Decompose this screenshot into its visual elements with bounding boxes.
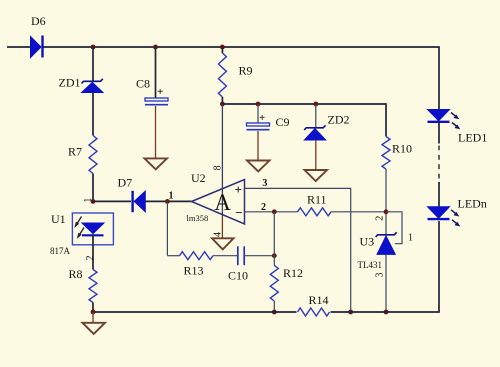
zener diode ZD2: [304, 113, 349, 140]
zener diode ZD1: [59, 76, 104, 93]
wire: U3 anode to bottom rail: [385, 254, 387, 312]
wire: LEDn anode stub: [438, 182, 440, 207]
ground below R8: [83, 323, 106, 334]
svg-text:8: 8: [213, 165, 224, 170]
resistor R13: [180, 252, 214, 278]
node: top rail / C8 branch junction: [153, 45, 158, 50]
resistor R9: [218, 53, 252, 97]
resistor R8: [69, 267, 98, 303]
svg-text:R14: R14: [309, 293, 329, 307]
wire: LEDn cathode down and bottom rail: [93, 221, 439, 312]
svg-text:C10: C10: [228, 269, 248, 283]
svg-text:R10: R10: [392, 141, 412, 155]
svg-text:R13: R13: [184, 263, 204, 277]
wire: R10 to U3 junction: [385, 169, 387, 236]
node: rail2 / R9 junction: [220, 102, 225, 107]
wire: ZD1 to R7: [92, 93, 94, 136]
svg-text:TL431: TL431: [358, 260, 383, 270]
resistor R12: [270, 266, 303, 302]
wire: second rail to R10 corner: [222, 104, 386, 137]
svg-text:+: +: [235, 182, 242, 197]
svg-text:D6: D6: [31, 14, 46, 28]
optocoupler U1: [50, 212, 113, 256]
node: pin2 / R12 top junction: [272, 209, 277, 214]
ground below op-amp: [212, 238, 234, 249]
svg-text:R9: R9: [239, 64, 253, 78]
svg-text:R12: R12: [283, 266, 303, 280]
svg-text:ZD1: ZD1: [59, 76, 81, 90]
svg-text:lm358: lm358: [187, 213, 209, 223]
wire: ground stem below C9: [257, 131, 259, 161]
diode D7: [118, 175, 146, 212]
wire: U1 to R8, pin 2: [92, 235, 94, 269]
wire: R9 bottom to rail2 junction: [221, 97, 223, 104]
svg-text:4: 4: [212, 232, 223, 237]
wire: R13 to C10: [213, 255, 237, 257]
wire: R11 to U3 ref junction: [331, 211, 386, 213]
node: R8 / bottom rail / ground junction: [91, 310, 96, 315]
wire: R7 to U1 node: [92, 174, 94, 202]
svg-text:−: −: [235, 205, 242, 220]
wire: feedback vertical from output node: [166, 201, 168, 255]
node: rail2 / ZD2 junction: [313, 102, 318, 107]
resistor R7: [68, 136, 97, 174]
svg-text:ZD2: ZD2: [328, 113, 350, 127]
wire: ground stem below op-amp pin 4: [221, 215, 223, 238]
node: top rail / R9 branch junction: [220, 45, 225, 50]
ground below C8: [145, 158, 168, 169]
wire: ground stem below ZD2: [315, 140, 317, 170]
svg-text:D7: D7: [118, 175, 133, 189]
wire: ZD1 branch down from top rail: [92, 47, 94, 81]
wire: R12 top lead: [273, 212, 275, 266]
node: pin3 drop / bottom rail junction: [348, 310, 353, 315]
wire: rail2 to C9: [257, 104, 259, 123]
svg-text:LED1: LED1: [458, 130, 487, 144]
wire: R12 bottom lead: [273, 301, 275, 312]
wire: feedback to R13: [167, 255, 179, 257]
wire: top rail left stub: [7, 46, 30, 48]
wire: R8 to bottom rail: [92, 303, 94, 313]
wire: dashed LED string continuation: [438, 146, 440, 185]
diode D6: [31, 14, 46, 58]
svg-text:U2: U2: [191, 171, 206, 185]
wire: C10 to node X: [244, 255, 274, 257]
wire: rail2 to ZD2: [315, 104, 317, 127]
node: R12 / bottom rail junction: [272, 310, 277, 315]
node: top rail / ZD1 branch junction: [91, 45, 96, 50]
node: R11 / R10 / U3 ref junction: [384, 209, 389, 214]
wire: top rail from D6 to right corner: [43, 47, 439, 110]
LED LEDn: [428, 197, 487, 227]
svg-text:1: 1: [408, 233, 413, 244]
svg-text:U1: U1: [51, 212, 66, 226]
ground below C9: [247, 161, 270, 172]
svg-text:+: +: [157, 86, 163, 98]
capacitor C8: [136, 76, 168, 104]
svg-text:3: 3: [262, 178, 267, 189]
shunt regulator U3 TL431: [358, 232, 397, 277]
wire: op-amp V+ line down through amplifier: [221, 104, 223, 215]
resistor R14 on bottom rail: [297, 293, 331, 318]
svg-text:817A: 817A: [50, 246, 71, 256]
capacitor C9: [247, 112, 290, 130]
wire: node to D7 cathode: [93, 200, 131, 202]
node: op-amp output / feedback junction, pin 1: [165, 199, 170, 204]
wire: op-amp pin 3 (+ input) to vertical drop: [245, 188, 351, 312]
svg-text:3: 3: [374, 273, 385, 278]
wire: LED1 cathode stub: [438, 122, 440, 144]
svg-text:+: +: [259, 112, 265, 124]
wire: ground stem below R8: [92, 312, 94, 323]
svg-text:C8: C8: [136, 76, 150, 90]
svg-text:2: 2: [85, 256, 96, 261]
wire: C8 branch from top rail: [155, 47, 157, 98]
svg-text:2: 2: [261, 202, 266, 213]
svg-text:2: 2: [374, 216, 385, 221]
svg-text:U3: U3: [360, 234, 375, 248]
LED LED1: [428, 110, 488, 145]
capacitor C10: [228, 246, 248, 282]
svg-text:A: A: [214, 190, 231, 215]
ground below ZD2: [305, 170, 328, 181]
svg-text:LEDn: LEDn: [458, 197, 487, 211]
wire: U3 reference loop: [386, 212, 402, 244]
wire: op-amp pin 2 (- input) to U3 ref: [245, 211, 298, 213]
node: rail2 / C9 junction: [256, 102, 261, 107]
svg-text:1: 1: [169, 191, 174, 202]
svg-text:C9: C9: [276, 115, 290, 129]
wire: top rail to R9: [221, 47, 223, 53]
op-amp U2: [187, 165, 245, 237]
node: U3 / bottom rail junction: [384, 310, 389, 315]
wire: D7 anode to op-amp output: [145, 200, 191, 202]
svg-text:R7: R7: [68, 145, 82, 159]
node: feedback / R12 junction: [272, 253, 277, 258]
svg-text:R8: R8: [69, 267, 83, 281]
resistor R10: [382, 137, 412, 170]
svg-text:R11: R11: [307, 193, 327, 207]
wire: ground stem below C8: [155, 106, 157, 159]
resistor R11: [298, 193, 332, 216]
